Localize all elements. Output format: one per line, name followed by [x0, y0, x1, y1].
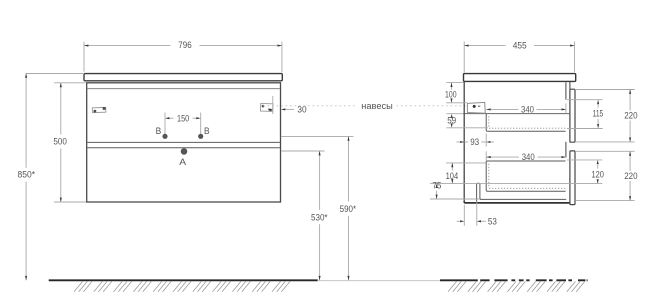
- dimension 530 line: [319, 151, 321, 210]
- floor line connector: [318, 280, 440, 282]
- dimension 30 leader: [286, 108, 295, 110]
- dimension 455 extension right: [574, 41, 576, 72]
- extension line recess top: [430, 183, 602, 185]
- drawer box 1 hidden back: [488, 116, 490, 128]
- svg-text:115: 115: [593, 108, 604, 118]
- dimension 340 lower extension left: [485, 151, 487, 160]
- dimension 30 arrows: [268, 108, 272, 110]
- drawer box 1 outline: [486, 114, 565, 132]
- dimension 115 extension top: [567, 99, 603, 101]
- service recess panel: [477, 183, 567, 202]
- dimension 220 upper extension top: [576, 89, 635, 91]
- mounting point B right: [198, 134, 203, 139]
- drawer box 2 hidden back: [488, 164, 490, 188]
- dimension 530 extension line: [281, 150, 325, 152]
- dimension 53 arrow tails: [457, 220, 460, 222]
- dimension 796 arrows: [84, 45, 88, 47]
- dimension 100 extension bottom: [446, 102, 467, 104]
- svg-text:850*: 850*: [18, 170, 36, 180]
- dimension 115 line: [597, 104, 599, 108]
- dimension 220 lower arrows: [629, 151, 631, 155]
- dimension 220 upper extension bottom: [576, 141, 635, 143]
- dimension 590 extension line: [281, 135, 354, 137]
- dimension 340 upper extension right: [565, 103, 567, 113]
- drawer front 1 side view: [570, 89, 575, 142]
- dimension 75 line: [436, 191, 438, 199]
- dimension 500 arrows: [60, 83, 62, 87]
- svg-text:B: B: [204, 126, 210, 136]
- dimension 100 extension top: [446, 82, 463, 84]
- dimension 500 extension bottom: [54, 201, 86, 203]
- mounting point A: [181, 148, 188, 155]
- dimension 530 arrows: [319, 151, 321, 155]
- svg-text:100: 100: [445, 90, 457, 100]
- dimension 340 upper arrows: [486, 108, 490, 110]
- countertop side view: [464, 74, 576, 82]
- dimension 104 extension top: [446, 162, 486, 164]
- dimension 53 extension left: [463, 205, 465, 226]
- dimension 500 line: [60, 83, 62, 135]
- front panels back line stub: [569, 82, 571, 89]
- dimension 100 arrows: [450, 83, 452, 87]
- cabinet body front view: [87, 83, 281, 202]
- svg-text:455: 455: [513, 41, 527, 51]
- dimension 59 extension bottom: [446, 127, 488, 129]
- dimension 100 line: [451, 83, 453, 90]
- cabinet bottom side view: [464, 201, 570, 203]
- dimension 850 line: [25, 73, 27, 167]
- dimension 150 extension lines: [164, 113, 166, 135]
- dimension 220 lower extension top: [576, 150, 635, 152]
- dimension 340 upper line: [486, 108, 518, 110]
- floor line right view: [440, 279, 478, 281]
- hanger bracket side view: [467, 102, 485, 113]
- svg-text:340: 340: [522, 152, 535, 162]
- dimension 796 extension line right: [281, 42, 283, 73]
- dimension 796 line: [84, 45, 171, 47]
- hanger bracket right (front view): [260, 103, 272, 111]
- dimension 75 extension bottom: [430, 198, 480, 200]
- dimension 150 line: [169, 117, 174, 119]
- svg-text:340: 340: [521, 104, 534, 114]
- dimension 850 arrows: [25, 73, 27, 77]
- floor hatching right view: [448, 281, 457, 291]
- carcass front edge middle segment: [565, 142, 567, 158]
- dimension 220 lower line: [629, 151, 631, 171]
- svg-text:530*: 530*: [311, 212, 328, 222]
- drawer front 2 side view: [570, 151, 575, 205]
- dimension 104 arrows: [451, 163, 453, 167]
- svg-text:53: 53: [488, 216, 497, 226]
- dimension 220 upper arrows: [629, 90, 631, 94]
- dimension 220 lower extension bottom: [576, 200, 635, 202]
- dimension 59 arrows: [451, 114, 453, 118]
- svg-text:30: 30: [297, 105, 306, 115]
- svg-text:104: 104: [446, 171, 459, 181]
- dimension 75 arrows: [436, 184, 438, 188]
- dimension 93 extension right: [485, 134, 487, 147]
- dimension 850 extension line: [26, 73, 83, 75]
- dimension 150 arrows: [165, 117, 169, 119]
- dimension 30 extension line: [272, 96, 274, 114]
- dimension 120 arrows: [597, 160, 599, 164]
- carcass front edge upper segment: [565, 82, 567, 99]
- dimension 340 lower line: [486, 156, 519, 158]
- dimension 93 arrow tails: [457, 141, 461, 143]
- drawer gap lower line: [87, 147, 280, 149]
- dimension 53 leader: [481, 220, 486, 222]
- dimension 104 line: [451, 163, 453, 171]
- mounting point B left: [162, 134, 167, 139]
- svg-text:навесы: навесы: [361, 101, 393, 111]
- svg-text:120: 120: [591, 170, 604, 180]
- svg-text:590*: 590*: [340, 204, 357, 214]
- dimension 455 line: [464, 45, 505, 47]
- svg-text:75: 75: [432, 181, 441, 191]
- countertop front view: [84, 74, 282, 81]
- dimension 115 arrows: [597, 100, 599, 104]
- dimension 120 line: [597, 165, 599, 169]
- drawer box 2 top line: [486, 160, 565, 162]
- svg-text:220: 220: [624, 171, 637, 181]
- drawer box 1 hidden bottom: [489, 127, 565, 129]
- dimension 115 extension bottom: [567, 128, 603, 130]
- compartment top line: [465, 113, 570, 115]
- drawer box 2 outline: [486, 161, 565, 191]
- floor hatching left view: [74, 281, 83, 291]
- dimension 53 arrows: [460, 220, 464, 222]
- dimension 340 lower arrows: [486, 156, 490, 158]
- dimension 455 arrows: [464, 45, 468, 47]
- hanger bracket left (front view): [92, 107, 106, 113]
- svg-text:59: 59: [447, 116, 456, 126]
- drawer fronts top edge line: [87, 88, 280, 90]
- svg-text:150: 150: [177, 113, 189, 123]
- hangers leader dashed line: [263, 105, 358, 107]
- svg-text:B: B: [156, 126, 162, 136]
- dimension 53 extension right: [476, 201, 478, 226]
- dimension 590 arrows: [347, 136, 349, 140]
- floor line left view: [49, 279, 318, 281]
- svg-text:93: 93: [470, 137, 479, 147]
- dimension 93 arrows: [460, 141, 464, 143]
- svg-text:500: 500: [53, 137, 67, 147]
- svg-text:220: 220: [624, 110, 637, 120]
- cabinet back edge side view: [463, 82, 465, 203]
- svg-text:796: 796: [178, 40, 192, 50]
- drawer box 2 hidden bottom: [489, 187, 565, 189]
- dimension 796 extension line left: [83, 42, 85, 72]
- dimension 220 upper line: [629, 90, 631, 111]
- drawer gap upper line: [87, 141, 280, 143]
- dimension 590 line: [348, 136, 350, 201]
- svg-text:A: A: [179, 157, 187, 167]
- dimension 93 line: [464, 141, 468, 143]
- dimension 120 extension top: [567, 159, 602, 161]
- dimension 500 extension top: [54, 82, 86, 84]
- dimension 59 extension top: [446, 113, 463, 115]
- dimension 455 extension left: [463, 41, 465, 72]
